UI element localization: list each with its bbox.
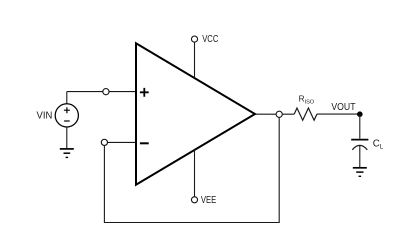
svg-text:VIN: VIN <box>37 111 53 122</box>
wire VCC supply <box>194 42 196 78</box>
node VEE terminal <box>191 197 197 203</box>
wire VIN source top riser <box>66 92 68 104</box>
capacitor CL curved plate <box>352 145 367 149</box>
node output terminal <box>276 111 282 117</box>
voltage source VIN <box>55 104 78 127</box>
svg-text:VEE: VEE <box>201 195 217 206</box>
node VCC terminal <box>191 36 197 42</box>
wire capacitor to ground <box>359 146 361 168</box>
voltage source minus sign <box>64 120 70 122</box>
wire noninverting input horizontal <box>67 91 136 93</box>
svg-text:VOUT: VOUT <box>331 102 355 113</box>
node input+ terminal <box>103 89 109 95</box>
resistor Riso <box>294 108 317 120</box>
op-amp plus input sign <box>140 88 149 97</box>
wire resistor to VOUT node <box>317 113 360 115</box>
voltage source plus sign <box>64 107 70 113</box>
node VOUT junction dot <box>357 111 363 117</box>
op-amp U1 <box>136 43 255 184</box>
op-amp minus input sign <box>140 142 149 144</box>
wire inverting input horizontal <box>104 141 135 143</box>
wire VOUT node to capacitor <box>359 114 361 138</box>
wire output <box>255 113 294 115</box>
svg-text:VCC: VCC <box>202 34 218 45</box>
ground below VIN <box>60 149 74 158</box>
wire feedback loop <box>104 114 279 222</box>
wire VEE supply <box>194 150 196 197</box>
ground below CL <box>353 168 367 177</box>
node input- terminal <box>101 139 107 145</box>
wire VIN source bottom <box>66 127 68 148</box>
capacitor CL top plate <box>351 139 368 141</box>
